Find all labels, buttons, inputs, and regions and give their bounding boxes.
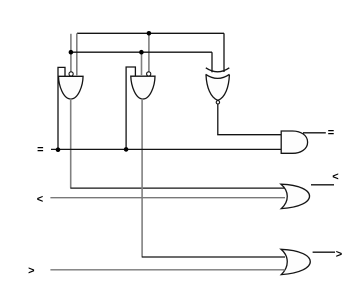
- wire U1 output to OR1 top input: [70, 187, 285, 189]
- wire equals row: [51, 148, 281, 150]
- svg-text:=: =: [37, 144, 43, 156]
- wire H1 top bus: [77, 32, 224, 34]
- wire V from H2 junction to gate U2 middle input: [141, 52, 143, 76]
- gate U1 AND-down body: [59, 76, 84, 99]
- wire V from H1 junction to gate U2 bubble input: [148, 33, 150, 72]
- wire L-shaped to gate U1 left input: [58, 67, 65, 150]
- wire OR2 output stub: [313, 251, 335, 253]
- wire U2 output to OR2 top input: [142, 256, 285, 258]
- gate U3 output bubble: [216, 101, 219, 104]
- gate U1 input bubble: [69, 72, 73, 76]
- gate U3 XNOR-down body: [206, 68, 230, 101]
- gate U2 AND-down body: [131, 76, 155, 99]
- svg-text:=: =: [328, 127, 334, 139]
- wire H2 second bus: [70, 51, 212, 53]
- wire V from H2 right corner to XNOR U3 left input: [211, 52, 213, 72]
- svg-text:<: <: [37, 193, 43, 205]
- wire XNOR output down: [217, 104, 219, 135]
- node junction equals row left: [56, 147, 61, 152]
- wire AND U4 output stub: [303, 132, 326, 134]
- gate OR2 body: [281, 249, 310, 274]
- wire L-shaped to gate U2 left input: [126, 67, 135, 149]
- wire V from H1 left corner to gate U1 right input: [76, 33, 78, 76]
- wire V gray through H2 to gate U1 bubble input: [70, 34, 72, 72]
- svg-text:<: <: [332, 171, 338, 183]
- wire less-than input row: [50, 197, 285, 199]
- gate U4 AND body: [281, 131, 307, 153]
- gate OR1 body: [281, 184, 310, 208]
- wire XNOR output to AND U4 top input: [217, 134, 281, 136]
- node junction H2 mid: [139, 50, 144, 55]
- wire V from H1 right corner to XNOR U3 right input: [223, 33, 225, 72]
- node junction H2 left: [69, 50, 74, 55]
- wire U2 output down: [141, 99, 143, 257]
- node junction on H1: [147, 31, 152, 36]
- svg-text:>: >: [28, 265, 34, 277]
- wire OR1 output stub: [311, 184, 334, 186]
- node junction equals row mid: [124, 147, 129, 152]
- svg-text:>: >: [336, 249, 342, 261]
- wire U1 output down: [70, 99, 72, 188]
- gate U2 input bubble: [147, 72, 151, 76]
- wire greater-than input row: [50, 269, 285, 271]
